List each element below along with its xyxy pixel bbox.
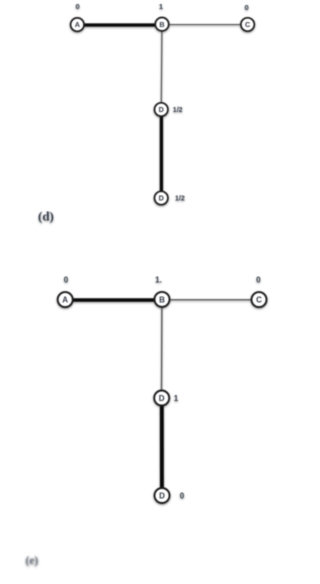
edge D-D (thick vertical, fig e) — [160, 406, 164, 488]
svg-text:1/2: 1/2 — [173, 107, 183, 114]
svg-text:D: D — [159, 105, 164, 114]
node C — [241, 18, 254, 31]
edge B-C (thin, fig e) — [171, 299, 252, 301]
svg-text:1: 1 — [174, 394, 179, 403]
svg-text:A: A — [75, 20, 80, 29]
svg-text:C: C — [256, 296, 262, 305]
svg-text:D: D — [159, 394, 165, 403]
svg-text:B: B — [159, 295, 165, 304]
svg-text:A: A — [62, 296, 68, 305]
svg-text:1: 1 — [159, 2, 163, 11]
svg-text:C: C — [245, 20, 250, 29]
node A (fig e) — [58, 292, 73, 307]
edge B-C (thin) — [169, 24, 241, 26]
node D (lower, fig d) — [155, 191, 168, 204]
node B (fig e) — [155, 292, 170, 307]
svg-text:B: B — [159, 20, 164, 29]
svg-text:0: 0 — [76, 2, 80, 11]
node D (upper, fig d) — [155, 103, 168, 116]
node C (fig e) — [252, 292, 267, 307]
svg-text:0: 0 — [180, 491, 185, 500]
svg-text:D: D — [159, 194, 164, 203]
edge A-B (thick) — [84, 23, 155, 26]
svg-text:0: 0 — [256, 276, 261, 285]
edge B-D (thin vertical, fig e) — [161, 308, 163, 391]
edge B-D (thin vertical) — [160, 32, 163, 104]
svg-text:0: 0 — [64, 276, 69, 285]
edge D-D (thick vertical) — [160, 117, 163, 192]
svg-text:1/2: 1/2 — [175, 196, 185, 203]
svg-text:(d): (d) — [38, 209, 54, 224]
node D (lower, fig e) — [155, 488, 170, 503]
svg-text:0: 0 — [245, 3, 249, 12]
svg-text:(e): (e) — [26, 555, 39, 567]
svg-text:1.: 1. — [155, 276, 162, 285]
edge A-B (thick, fig e) — [74, 298, 155, 302]
node D (upper, fig e) — [154, 391, 169, 406]
svg-text:D: D — [159, 491, 165, 500]
node B — [155, 18, 168, 31]
node A — [71, 18, 84, 31]
